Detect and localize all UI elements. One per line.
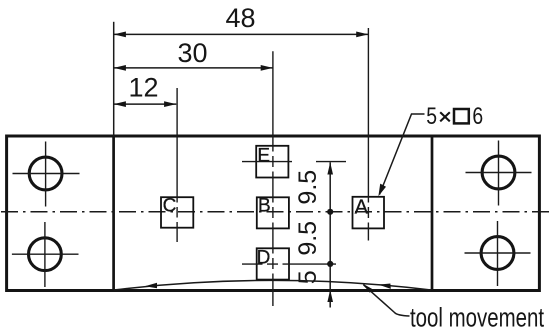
dimension line 30 (114, 67, 273, 69)
hole top-left circle (29, 157, 62, 190)
arrow up at bottom edge (327, 290, 333, 302)
svg-text:C: C (163, 196, 177, 217)
divider line left block (112, 136, 115, 291)
hole bottom-left crosshair (12, 222, 79, 287)
svg-text:E: E (257, 146, 270, 167)
arrow up at E (327, 162, 333, 174)
svg-text:9.5: 9.5 (294, 221, 322, 256)
svg-text:A: A (355, 197, 369, 219)
hole bottom-right crosshair (465, 221, 531, 286)
arc arrow right (379, 284, 391, 289)
centerline column C (176, 88, 178, 242)
square pocket B (257, 197, 289, 228)
junction dot at D (327, 261, 333, 267)
hole bottom-right circle (481, 237, 514, 270)
centerline horizontal D (242, 263, 336, 265)
multiplication sign (440, 112, 450, 121)
tool path arc (114, 280, 431, 290)
hole bottom-left circle (29, 238, 62, 271)
leader 5x6 (380, 114, 425, 195)
svg-text:48: 48 (225, 3, 255, 33)
square pocket D (257, 248, 289, 279)
divider line right block (431, 136, 434, 291)
label square symbol (454, 109, 469, 123)
dimension line 48 (114, 33, 369, 35)
centerline column A (367, 28, 369, 241)
hole top-left crosshair (13, 142, 80, 207)
vertical dimension line 9.5 9.5 5 (329, 162, 331, 307)
main horizontal centerline (1, 211, 549, 213)
square pocket E (256, 146, 288, 178)
square pocket A (353, 197, 385, 229)
hole top-right crosshair (466, 141, 532, 206)
svg-text:5: 5 (426, 103, 437, 130)
svg-text:5: 5 (294, 270, 322, 284)
svg-text:B: B (258, 195, 271, 216)
centerline column E B D (272, 51, 274, 306)
extension line at x=113.7 (113, 22, 115, 136)
svg-text:9.5: 9.5 (294, 170, 322, 205)
svg-text:tool movement: tool movement (410, 302, 544, 332)
leader tool movement (364, 285, 410, 316)
svg-text:30: 30 (177, 38, 207, 68)
dimension line 12 (114, 103, 177, 105)
arc arrow left (145, 283, 157, 288)
svg-text:D: D (257, 248, 271, 269)
centerline horizontal E (242, 161, 346, 163)
plate outline (7, 136, 540, 291)
svg-text:6: 6 (472, 103, 483, 130)
svg-text:12: 12 (128, 72, 158, 102)
hole top-right circle (482, 156, 515, 189)
square pocket C (161, 197, 193, 228)
junction dot at centerline (327, 209, 333, 215)
